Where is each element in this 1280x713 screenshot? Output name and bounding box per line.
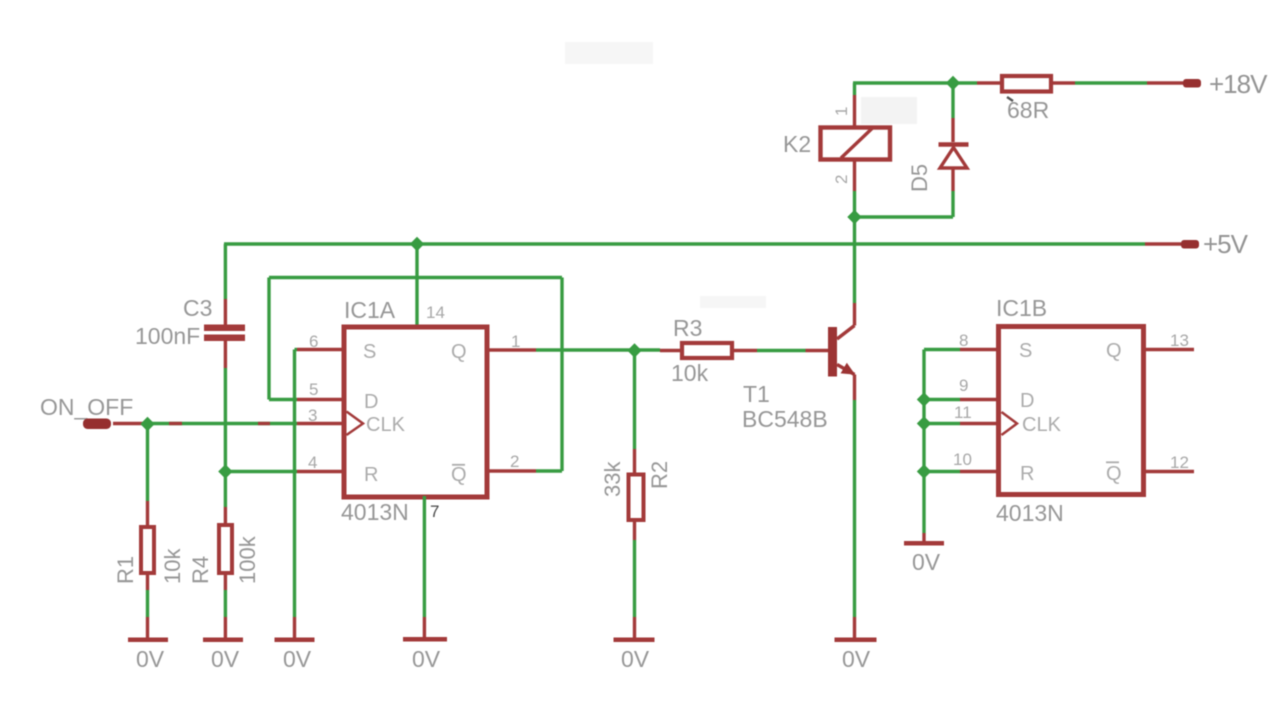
svg-text:D5: D5 [907,164,932,192]
wire D5 anode vertical green [951,191,954,217]
svg-text:+5V: +5V [1203,229,1249,259]
wire +18V rail left segment [853,81,953,84]
resistor R2 bottom lead [633,522,636,540]
pin IC1A CLK pin3 stub [297,422,345,425]
pin IC1B R pin10 stub [960,470,999,473]
wire C3 top from +5V rail [224,244,227,299]
svg-text:33k: 33k [600,461,625,497]
svg-text:Q: Q [1106,463,1122,485]
svg-text:CLK: CLK [366,414,406,436]
wire ON_OFF to CLK pin3 [145,422,297,425]
svg-text:10: 10 [953,450,972,469]
svg-text:R2: R2 [647,461,672,489]
wire S ground vertical [293,350,296,618]
wire into D pin [269,398,297,401]
capacitor C3 top plate [204,325,245,332]
ground bar S [275,638,315,643]
svg-text:0V: 0V [842,646,871,672]
ground bar pin7 [403,637,447,642]
resistor R4 body [219,525,232,573]
resistor R2 body [629,475,644,521]
svg-text:11: 11 [954,403,972,422]
svg-text:5: 5 [309,380,318,399]
ground lead R4 [224,617,227,638]
ground lead T1 [853,617,856,638]
svg-text:T1: T1 [743,381,770,407]
wire relay node to D5 anode [855,215,954,218]
svg-text:4013N: 4013N [341,499,409,525]
node junction +18V rail / D5 / 68R [946,76,960,90]
pin IC1B Qn pin12 stub [1143,470,1194,473]
wire IC1B R branch [924,470,960,473]
svg-text:K2: K2 [783,131,811,157]
svg-text:2: 2 [832,175,851,184]
svg-text:D: D [1020,390,1034,412]
svg-text:12: 12 [1170,453,1189,472]
node junction IC1B D [917,392,931,406]
svg-text:7: 7 [430,502,439,521]
svg-text:4013N: 4013N [996,500,1064,526]
svg-text:6: 6 [309,332,318,351]
capacitor C3 bottom lead [224,341,227,368]
svg-text:8: 8 [959,331,968,350]
pin IC1A Qn pin2 stub [486,469,536,472]
wire R1 top [146,424,149,502]
transistor T1 base bar [828,327,837,377]
resistor R2 top lead [633,449,636,473]
svg-text:1: 1 [511,332,520,351]
svg-text:0V: 0V [912,549,941,575]
diode D5 cathode lead [951,118,954,142]
wire R4 top [224,477,227,507]
svg-text:Q: Q [1106,340,1122,362]
svg-text:S: S [1019,340,1032,362]
svg-text:0V: 0V [412,646,441,672]
resistor 68R right lead [1053,81,1075,84]
ground bar IC1B [904,541,944,546]
wire feedback right vertical from Qn [560,278,563,472]
ground lead IC1B [922,533,925,541]
svg-text:0V: 0V [283,646,312,672]
smudge artifact left of R3 label [700,296,766,308]
pin IC1A D pin5 stub [297,398,345,401]
pin IC1B S pin8 stub [960,348,999,351]
overline Qn IC1B [1106,461,1119,463]
wire IC1B ground bus top [924,348,960,351]
overline Qn IC1A [452,464,465,466]
wire IC1B CLK branch [924,422,960,425]
smudge artifact near relay [861,97,917,124]
pin IC1A S pin6 stub [297,348,345,351]
svg-text:CLK: CLK [1022,414,1062,436]
svg-text:Q: Q [451,464,467,486]
wire feedback top horizontal (Qn to D) [269,276,562,279]
node junction ON_OFF / R1 [140,417,154,431]
ground bar R4 [203,638,243,643]
wire IC1A pin14 from +5V junction [415,244,418,327]
ground lead R2 [633,617,636,638]
svg-text:+18V: +18V [1209,69,1268,99]
relay K2 coil diagonal [841,129,872,159]
wire C3 to R4 node [224,368,227,472]
wire collector to relay node [853,217,856,303]
op IC1A box [344,327,487,497]
red dash on CLK wire 1 [169,422,182,425]
svg-text:Q: Q [451,341,467,363]
transistor T1 emitter arrow [841,363,856,375]
IC1A clock wedge [347,412,364,436]
diode D5 cathode bar [939,142,969,147]
wire R2 to ground [633,540,636,617]
wire Qn stub to feedback vertical [536,469,562,472]
svg-text:1: 1 [832,107,851,116]
pin IC1B D pin9 stub [960,398,999,401]
wire D5 cathode to +18V rail [951,83,954,118]
supply pin +18V stub [1183,79,1201,88]
svg-text:S: S [363,341,376,363]
svg-text:D: D [364,391,378,413]
diode D5 anode lead [951,168,954,191]
wire ON_OFF stub to junction [113,422,145,425]
svg-text:ON_OFF: ON_OFF [40,394,133,420]
svg-text:0V: 0V [621,646,650,672]
node junction IC1B R [917,464,931,478]
svg-text:BC548B: BC548B [742,406,828,432]
transistor T1 collector diagonal [837,326,855,340]
node junction IC1B CLK [917,416,931,430]
svg-text:0V: 0V [211,646,240,672]
ground lead R1 [146,617,149,638]
svg-text:13: 13 [1170,331,1189,350]
supply pin +5V stub [1181,240,1199,249]
smudge artifact top middle [565,42,653,64]
svg-text:R: R [1020,463,1034,485]
pin relay K2 pin2 lead [853,160,856,191]
svg-text:3: 3 [308,406,317,425]
resistor R3 left lead [660,349,682,352]
wire relay pin2 to node [853,191,856,217]
svg-text:2: 2 [510,452,519,471]
pin IC1B Q pin13 stub [1143,348,1194,351]
pin IC1B CLK pin11 stub [960,422,999,425]
svg-text:R4: R4 [188,556,213,584]
svg-text:9: 9 [959,376,968,395]
svg-text:14: 14 [426,303,445,322]
ground bar R1 [128,638,168,643]
resistor R4 bottom lead [224,575,227,590]
wire Q pin1 to R3 [536,348,660,351]
pin IC1A R pin4 stub [297,470,345,473]
node junction C3 / R4 / pin4 [218,464,232,478]
pin T1 base lead [806,349,829,352]
transistor T1 emitter diagonal [837,365,855,375]
wire R2 top [633,351,636,450]
ground bar R2 [614,638,655,643]
capacitor C3 top lead [224,299,227,325]
wire IC1B ground bus vertical [922,350,925,534]
wire +18V rail to 68R [953,81,977,84]
capacitor C3 bottom plate [204,335,245,342]
svg-text:10k: 10k [160,548,185,584]
svg-text:C3: C3 [183,295,212,321]
transistor T1 emitter lead [853,375,856,401]
diode D5 triangle [940,148,967,169]
svg-text:4: 4 [308,453,317,472]
svg-text:IC1B: IC1B [996,295,1047,321]
relay K2 coil box [821,128,891,160]
pin IC1A Q pin1 stub [486,348,536,351]
node junction +5V / IC1A pin14 [410,237,424,251]
wire maroon tail at +5V pin [1145,242,1181,245]
wire node to R pin4 [225,470,297,473]
op IC1B box [999,327,1144,495]
ground lead S [293,617,296,638]
resistor R1 body [141,527,154,573]
wire IC1B D branch [924,398,960,401]
wire R1 to ground [146,590,149,617]
wire S pin6 to ground vertical [295,348,298,351]
node junction Q1 / R2 / R3 [627,343,641,357]
wire relay pin1 green top [853,83,856,95]
resistor 68R body [1002,76,1051,92]
resistor R1 top lead [146,501,149,525]
transistor T1 collector lead [853,303,856,326]
red dash on CLK wire 2 [258,422,270,425]
resistor R3 body [682,343,732,358]
wire IC1A pin7 to ground [423,496,426,617]
svg-text:0V: 0V [136,646,165,672]
node junction relay/D5/collector [847,210,861,224]
wire R3 to T1 base [757,349,806,352]
svg-text:10k: 10k [671,360,709,386]
ground lead pin7 [423,617,426,637]
resistor R4 top lead [224,507,227,523]
svg-text:68R: 68R [1007,97,1049,123]
wire R4 to ground [224,590,227,617]
svg-text:R: R [364,464,378,486]
svg-text:IC1A: IC1A [344,297,396,323]
resistor R3 right lead [734,349,757,352]
wire emitter to ground [853,400,856,617]
resistor R1 bottom lead [146,575,149,590]
IC1B clock wedge [1002,412,1018,435]
svg-text:100k: 100k [235,535,260,584]
wire +5V rail [224,242,1145,245]
ground bar T1 [835,638,877,643]
wire feedback left vertical to D [267,278,270,400]
port ON_OFF stub [83,419,111,430]
resistor 68R left lead [977,81,1000,84]
svg-text:100nF: 100nF [135,323,200,349]
svg-text:R1: R1 [113,556,138,584]
wire 68R to +18V pin [1075,81,1147,84]
pin relay K2 pin1 lead [853,95,856,127]
wire maroon tail at +18V pin [1147,81,1183,84]
svg-text:R3: R3 [673,315,702,341]
cursor artifact above 68R [1007,97,1013,101]
